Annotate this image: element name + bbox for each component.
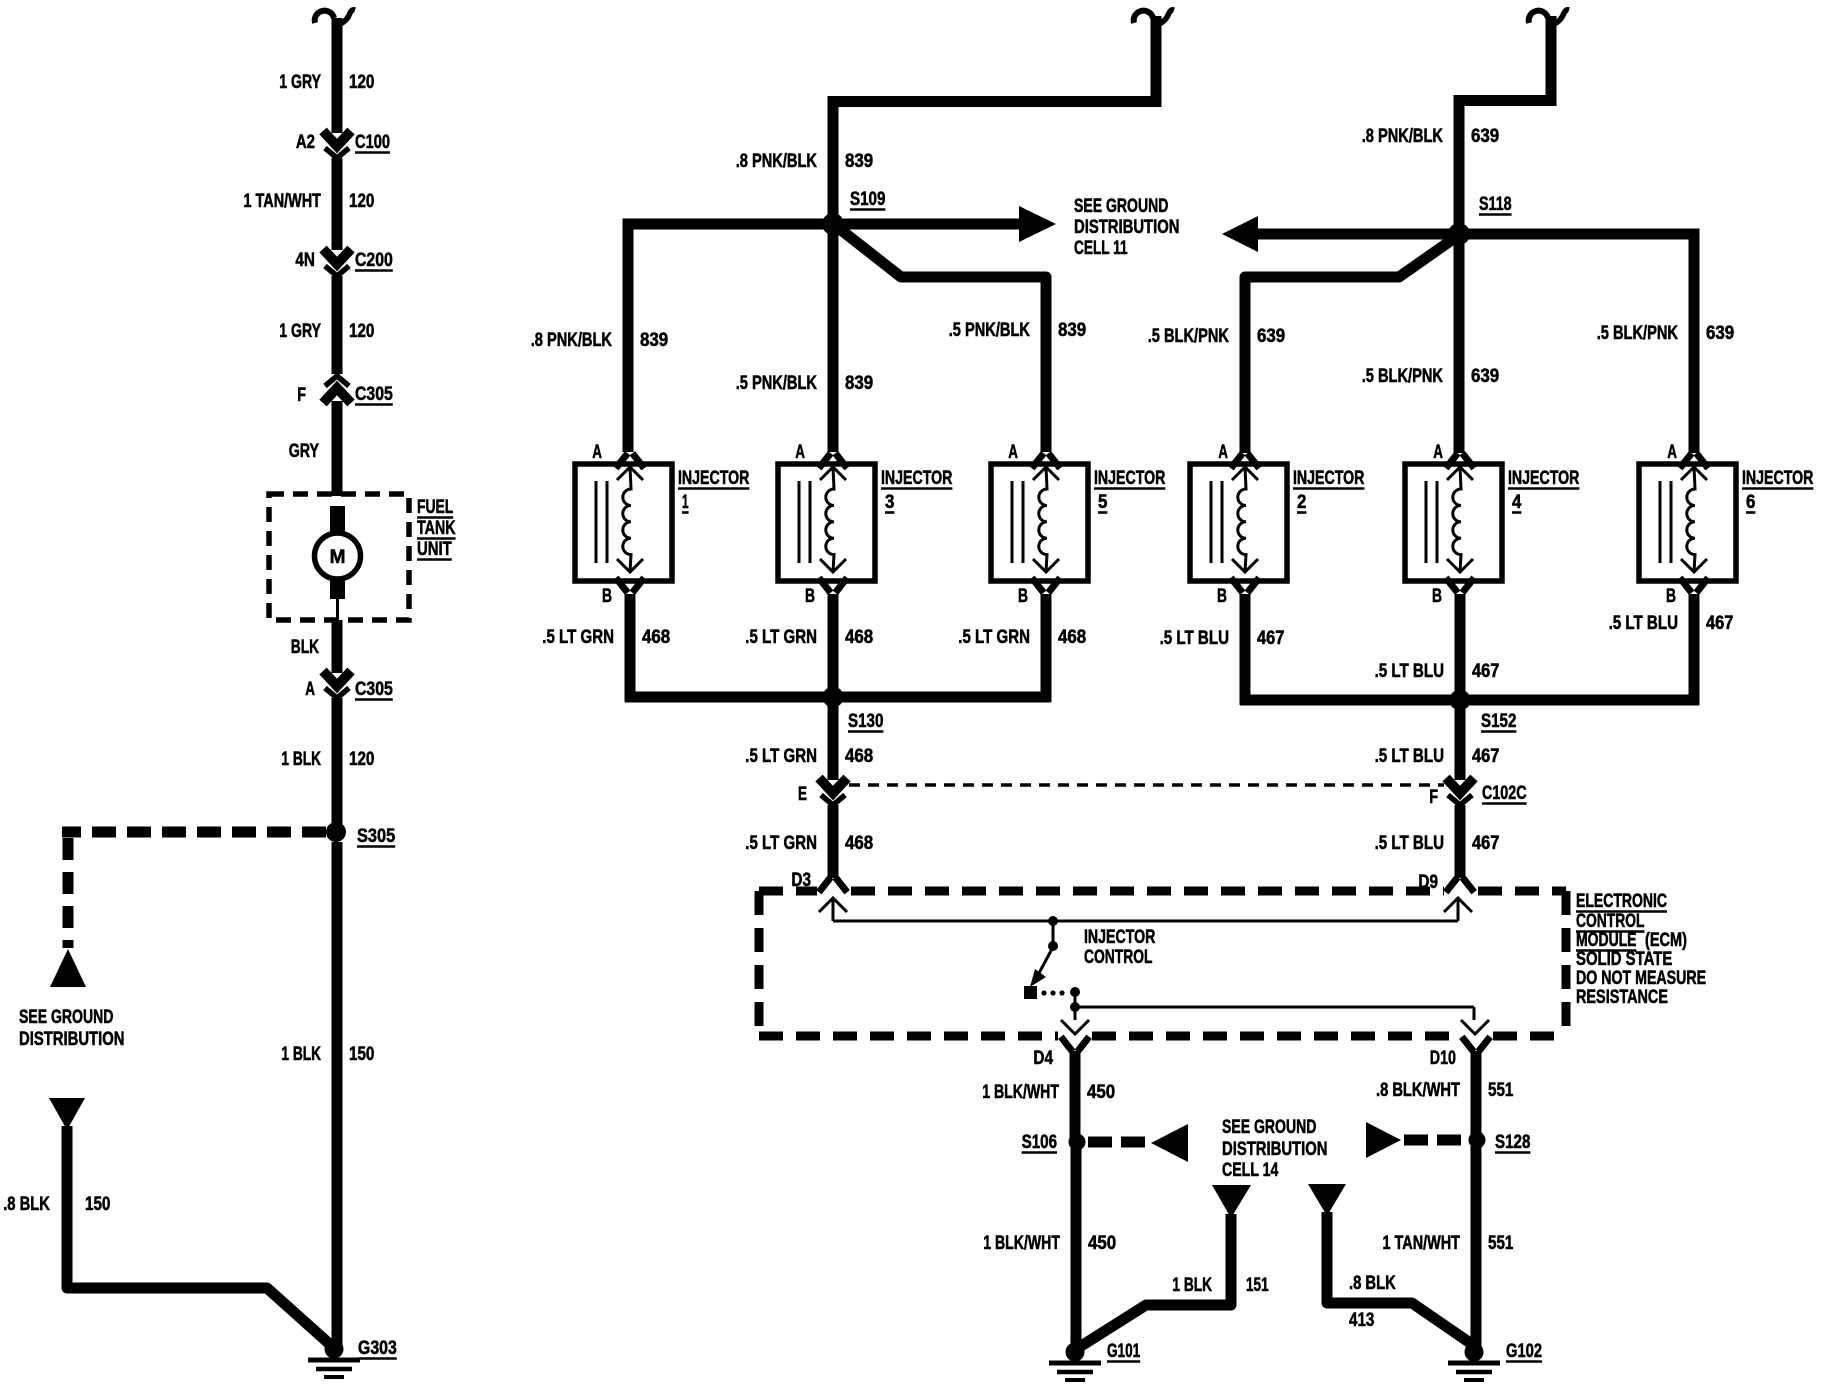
svg-text:468: 468 bbox=[845, 746, 873, 767]
svg-text:839: 839 bbox=[640, 330, 668, 351]
wire: left feed from fuse, squiggle top bbox=[315, 10, 355, 133]
svg-text:G101: G101 bbox=[1107, 1341, 1141, 1362]
svg-text:FUEL: FUEL bbox=[417, 497, 454, 518]
svg-text:DISTRIBUTION: DISTRIBUTION bbox=[19, 1029, 125, 1050]
svg-text:M: M bbox=[330, 547, 346, 568]
svg-text:839: 839 bbox=[845, 373, 873, 394]
wire 1 GRY 120 bbox=[279, 276, 374, 374]
splice S106 bbox=[1022, 1132, 1086, 1153]
wire S118 to injector 6 bbox=[1464, 234, 1694, 453]
svg-text:S128: S128 bbox=[1495, 1132, 1530, 1153]
ECM internal line to D10 bbox=[1075, 1007, 1489, 1034]
svg-text:1: 1 bbox=[682, 492, 689, 513]
svg-text:.8 BLK/WHT: .8 BLK/WHT bbox=[1376, 1080, 1460, 1101]
svg-text:B: B bbox=[805, 586, 815, 607]
wire label .8 PNK/BLK 839 bbox=[736, 151, 874, 172]
svg-text:.5 PNK/BLK: .5 PNK/BLK bbox=[949, 320, 1031, 341]
svg-text:A: A bbox=[1433, 442, 1443, 463]
wire 1 BLK 120 bbox=[281, 698, 374, 830]
connector D10 out of ECM bbox=[1430, 1040, 1488, 1070]
fuel tank unit dashed box bbox=[269, 494, 409, 620]
wire F to D9, .5 LT BLU 467 bbox=[1375, 805, 1500, 878]
svg-text:DO NOT MEASURE: DO NOT MEASURE bbox=[1576, 968, 1706, 989]
injector 1 bbox=[575, 442, 750, 607]
svg-text:467: 467 bbox=[1472, 746, 1499, 767]
svg-text:S305: S305 bbox=[357, 826, 396, 847]
wire 1 BLK 150 down to G303 bbox=[281, 842, 374, 1347]
svg-text:1 BLK: 1 BLK bbox=[281, 749, 321, 770]
svg-text:3: 3 bbox=[885, 492, 894, 513]
bus wire to S130 bbox=[625, 692, 1051, 703]
svg-text:4N: 4N bbox=[295, 250, 315, 271]
svg-text:467: 467 bbox=[1257, 628, 1284, 649]
svg-text:DISTRIBUTION: DISTRIBUTION bbox=[1074, 217, 1180, 238]
svg-text:450: 450 bbox=[1087, 1082, 1115, 1103]
wire S118 to injector 4 bbox=[1454, 240, 1465, 453]
connector C102C pin E bbox=[798, 778, 847, 805]
svg-text:639: 639 bbox=[1706, 323, 1734, 344]
svg-text:INJECTOR: INJECTOR bbox=[1508, 468, 1580, 489]
svg-text:468: 468 bbox=[642, 627, 670, 648]
wire label .8 PNK/BLK 839 (injector 1 branch) bbox=[531, 330, 669, 351]
connector C305 pin A bbox=[305, 671, 393, 700]
ECM internal line D3-D9 bbox=[833, 920, 1458, 923]
svg-text:150: 150 bbox=[349, 1044, 374, 1065]
svg-text:.5 LT BLU: .5 LT BLU bbox=[1375, 661, 1444, 682]
svg-text:B: B bbox=[1018, 586, 1028, 607]
splice S128 bbox=[1469, 1132, 1531, 1154]
svg-text:.5 LT GRN: .5 LT GRN bbox=[542, 627, 614, 648]
svg-text:INJECTOR: INJECTOR bbox=[881, 468, 953, 489]
dashed connector line C102C bbox=[849, 783, 1444, 787]
wire 1 BLK 151 bbox=[1078, 1214, 1231, 1348]
svg-text:839: 839 bbox=[845, 151, 873, 172]
svg-text:.5 LT GRN: .5 LT GRN bbox=[745, 746, 817, 767]
svg-text:A: A bbox=[1218, 442, 1228, 463]
svg-text:.8 BLK: .8 BLK bbox=[3, 1194, 50, 1215]
ECM dashed box bbox=[759, 891, 1566, 1036]
svg-text:SEE GROUND: SEE GROUND bbox=[1074, 196, 1168, 217]
svg-text:.5 BLK/PNK: .5 BLK/PNK bbox=[1362, 366, 1444, 387]
svg-text:468: 468 bbox=[845, 627, 873, 648]
svg-text:.5 LT BLU: .5 LT BLU bbox=[1375, 833, 1444, 854]
connector C100, pin A2 bbox=[296, 131, 390, 158]
svg-text:1 GRY: 1 GRY bbox=[279, 321, 321, 342]
svg-text:A: A bbox=[1008, 442, 1018, 463]
fuel tank unit label bbox=[417, 497, 456, 560]
svg-text:INJECTOR: INJECTOR bbox=[1293, 468, 1365, 489]
svg-text:CELL 11: CELL 11 bbox=[1074, 238, 1128, 259]
svg-text:.5 LT GRN: .5 LT GRN bbox=[745, 833, 817, 854]
svg-text:RESISTANCE: RESISTANCE bbox=[1576, 987, 1668, 1008]
svg-text:1 TAN/WHT: 1 TAN/WHT bbox=[1383, 1233, 1461, 1254]
svg-text:.5 LT BLU: .5 LT BLU bbox=[1160, 628, 1229, 649]
svg-text:GRY: GRY bbox=[289, 441, 320, 462]
svg-text:150: 150 bbox=[85, 1194, 110, 1215]
off-page arrow down (left, cell 14 ground) bbox=[1212, 1185, 1251, 1218]
wire S130 to E, .5 LT GRN 468 bbox=[745, 702, 873, 780]
off-page arrow down (right, cell 14 ground) bbox=[1308, 1184, 1346, 1216]
wire label .5 BLK/PNK 639 (injector 6 branch) bbox=[1597, 323, 1735, 344]
svg-text:1 BLK/WHT: 1 BLK/WHT bbox=[983, 1233, 1060, 1254]
wire injector 1 B to bus, .5 LT GRN 468 bbox=[542, 594, 670, 702]
dashed link to S128 bbox=[1404, 1135, 1466, 1146]
svg-text:.5 LT GRN: .5 LT GRN bbox=[745, 627, 817, 648]
injector 2 bbox=[1190, 442, 1365, 607]
wire GRY bbox=[289, 401, 337, 496]
svg-text:E: E bbox=[798, 784, 807, 805]
ground G102 bbox=[1448, 1341, 1542, 1380]
svg-text:4: 4 bbox=[1512, 492, 1522, 513]
wire: middle feed squiggle bbox=[833, 10, 1174, 228]
svg-text:(ECM): (ECM) bbox=[1645, 930, 1687, 951]
wire injector 4 B to bus, .5 LT BLU 467 bbox=[1375, 594, 1500, 705]
svg-text:1 GRY: 1 GRY bbox=[279, 72, 321, 93]
wire injector 2 B to bus, .5 LT BLU 467 bbox=[1160, 594, 1285, 705]
svg-text:CONTROL: CONTROL bbox=[1576, 911, 1645, 932]
svg-text:B: B bbox=[1217, 586, 1227, 607]
wire label 1 GRY 120 bbox=[279, 72, 374, 93]
svg-text:839: 839 bbox=[1058, 320, 1086, 341]
splice S130 bbox=[823, 687, 884, 733]
wire injector 3 B to bus, .5 LT GRN 468 bbox=[745, 594, 873, 702]
svg-text:.8 BLK: .8 BLK bbox=[1349, 1273, 1396, 1294]
wire S152 to F, .5 LT BLU 467 bbox=[1375, 705, 1500, 780]
svg-text:.5 LT BLU: .5 LT BLU bbox=[1375, 746, 1444, 767]
svg-text:ELECTRONIC: ELECTRONIC bbox=[1576, 891, 1667, 912]
wire label .5 BLK/PNK 639 (injector 4 branch) bbox=[1362, 366, 1500, 387]
svg-text:6: 6 bbox=[1746, 492, 1755, 513]
injector control switch bbox=[1024, 916, 1080, 1012]
wire 1 TAN/WHT 551 to G102 bbox=[1383, 1146, 1514, 1350]
svg-text:UNIT: UNIT bbox=[417, 539, 452, 560]
svg-text:1 BLK: 1 BLK bbox=[1172, 1275, 1212, 1296]
wire E to D3, .5 LT GRN 468 bbox=[745, 805, 873, 878]
connector C200, pin 4N bbox=[295, 249, 392, 276]
injector 3 bbox=[778, 442, 953, 607]
off-page arrow right: see ground distribution cell 11 bbox=[843, 206, 1056, 242]
svg-text:1 BLK/WHT: 1 BLK/WHT bbox=[982, 1082, 1059, 1103]
svg-text:1 TAN/WHT: 1 TAN/WHT bbox=[244, 191, 322, 212]
splice S118 bbox=[1448, 194, 1512, 245]
svg-text:SEE GROUND: SEE GROUND bbox=[1222, 1117, 1316, 1138]
injector 5 bbox=[991, 442, 1166, 607]
svg-text:120: 120 bbox=[349, 72, 374, 93]
connector D9 into ECM bbox=[1418, 872, 1472, 893]
svg-text:.5 BLK/PNK: .5 BLK/PNK bbox=[1148, 326, 1230, 347]
ECM internal line to D4 bbox=[1061, 1007, 1089, 1034]
svg-text:.5 LT GRN: .5 LT GRN bbox=[958, 627, 1030, 648]
wire S109 to injector 1 bbox=[628, 224, 838, 452]
svg-text:.8 PNK/BLK: .8 PNK/BLK bbox=[1362, 126, 1444, 147]
svg-text:639: 639 bbox=[1471, 366, 1499, 387]
svg-text:INJECTOR: INJECTOR bbox=[1084, 927, 1156, 948]
svg-text:C305: C305 bbox=[355, 384, 393, 405]
svg-text:C100: C100 bbox=[355, 132, 390, 153]
svg-text:151: 151 bbox=[1246, 1275, 1269, 1296]
ground G101 bbox=[1049, 1341, 1141, 1380]
splice S305 bbox=[326, 822, 396, 847]
svg-text:C200: C200 bbox=[355, 250, 393, 271]
svg-text:5: 5 bbox=[1098, 492, 1108, 513]
svg-text:.8 PNK/BLK: .8 PNK/BLK bbox=[531, 330, 613, 351]
label SEE GROUND DISTRIBUTION CELL 14 bbox=[1222, 1117, 1328, 1181]
wire label .5 PNK/BLK 839 (injector 3 branch) bbox=[736, 373, 874, 394]
svg-text:B: B bbox=[1666, 586, 1676, 607]
svg-text:INJECTOR: INJECTOR bbox=[1742, 468, 1814, 489]
svg-text:A: A bbox=[592, 442, 602, 463]
svg-text:120: 120 bbox=[349, 321, 374, 342]
svg-text:639: 639 bbox=[1257, 326, 1285, 347]
wire injector 5 B to bus, .5 LT GRN 468 bbox=[958, 594, 1086, 702]
svg-text:S106: S106 bbox=[1022, 1132, 1057, 1153]
wire S109 to injector 5 (jog) bbox=[836, 226, 1046, 452]
injector 4 bbox=[1405, 442, 1580, 607]
svg-text:467: 467 bbox=[1472, 833, 1499, 854]
svg-text:551: 551 bbox=[1488, 1233, 1514, 1254]
label SEE GROUND DISTRIBUTION bbox=[19, 1007, 125, 1050]
svg-text:CONTROL: CONTROL bbox=[1084, 947, 1153, 968]
svg-text:D4: D4 bbox=[1033, 1048, 1053, 1069]
svg-text:SOLID STATE: SOLID STATE bbox=[1576, 949, 1672, 970]
svg-text:G102: G102 bbox=[1506, 1341, 1542, 1362]
svg-text:B: B bbox=[1432, 586, 1442, 607]
wire: right feed squiggle bbox=[1459, 10, 1569, 238]
bus wire to S152 bbox=[1240, 695, 1699, 706]
splice S109 bbox=[822, 189, 885, 235]
svg-text:B: B bbox=[602, 586, 612, 607]
ECM label block bbox=[1576, 891, 1706, 1008]
svg-text:A: A bbox=[305, 679, 315, 700]
off-page arrow down feeding .8 BLK 150 bbox=[49, 1098, 85, 1130]
wire .8 BLK 413 bbox=[1327, 1212, 1476, 1347]
svg-text:.5 PNK/BLK: .5 PNK/BLK bbox=[736, 373, 818, 394]
svg-text:.5 BLK/PNK: .5 BLK/PNK bbox=[1597, 323, 1679, 344]
wire 1 BLK/WHT 450 to G101 bbox=[983, 1148, 1116, 1350]
svg-text:639: 639 bbox=[1471, 126, 1499, 147]
ECM pin arrow D3 bbox=[819, 898, 847, 921]
connector D3 into ECM bbox=[791, 870, 845, 891]
svg-text:MODULE: MODULE bbox=[1576, 930, 1637, 951]
svg-text:SEE GROUND: SEE GROUND bbox=[19, 1007, 113, 1028]
ground G303 bbox=[308, 1338, 397, 1377]
svg-text:C305: C305 bbox=[355, 679, 393, 700]
svg-text:468: 468 bbox=[1058, 627, 1086, 648]
svg-text:C102C: C102C bbox=[1482, 783, 1527, 804]
svg-text:S130: S130 bbox=[848, 711, 883, 732]
injector 6 bbox=[1639, 442, 1814, 607]
ECM pin arrow D9 bbox=[1444, 898, 1472, 921]
svg-text:2: 2 bbox=[1297, 492, 1306, 513]
svg-text:D10: D10 bbox=[1430, 1048, 1456, 1069]
svg-text:G303: G303 bbox=[358, 1338, 397, 1359]
wire injector 6 B to bus, .5 LT BLU 467 bbox=[1609, 594, 1734, 705]
svg-text:413: 413 bbox=[1349, 1310, 1374, 1331]
wire S118 to injector 2 (jog) bbox=[1245, 237, 1456, 453]
connector C102C pin F bbox=[1429, 778, 1527, 808]
wire 1 TAN/WHT 120 bbox=[244, 158, 375, 250]
svg-text:467: 467 bbox=[1706, 613, 1733, 634]
dashed wire from S305 to ground distribution bbox=[62, 832, 326, 948]
wire label .5 PNK/BLK 839 (injector 5 branch) bbox=[949, 320, 1087, 341]
connector C305, pin F bbox=[297, 376, 393, 406]
off-page arrow left (cell 14) bbox=[1151, 1124, 1188, 1162]
svg-text:1 BLK: 1 BLK bbox=[281, 1044, 321, 1065]
svg-text:S118: S118 bbox=[1479, 194, 1512, 215]
dashed link S106 to off-page arrow bbox=[1088, 1137, 1150, 1148]
fuel pump motor M bbox=[315, 506, 361, 622]
splice S152 bbox=[1450, 690, 1517, 733]
svg-text:468: 468 bbox=[845, 833, 873, 854]
svg-text:.8 PNK/BLK: .8 PNK/BLK bbox=[736, 151, 818, 172]
label INJECTOR CONTROL bbox=[1084, 927, 1156, 968]
svg-text:CELL 14: CELL 14 bbox=[1222, 1160, 1279, 1181]
svg-text:BLK: BLK bbox=[291, 637, 319, 658]
connector D4 out of ECM bbox=[1033, 1040, 1087, 1070]
wire .8 BLK 150 bbox=[3, 1126, 334, 1348]
wire label .8 PNK/BLK 639 bbox=[1362, 126, 1500, 147]
svg-text:551: 551 bbox=[1488, 1080, 1514, 1101]
wire BLK below tank bbox=[291, 620, 337, 673]
svg-text:DISTRIBUTION: DISTRIBUTION bbox=[1222, 1139, 1328, 1160]
svg-text:F: F bbox=[297, 385, 306, 406]
svg-text:F: F bbox=[1429, 787, 1438, 808]
svg-text:120: 120 bbox=[349, 749, 374, 770]
svg-text:INJECTOR: INJECTOR bbox=[678, 468, 750, 489]
svg-text:A: A bbox=[795, 442, 805, 463]
svg-text:450: 450 bbox=[1088, 1233, 1116, 1254]
wire 1 BLK/WHT 450 bbox=[982, 1051, 1115, 1140]
wire .8 BLK/WHT 551 bbox=[1376, 1051, 1514, 1136]
svg-text:120: 120 bbox=[349, 191, 374, 212]
svg-text:.5 LT BLU: .5 LT BLU bbox=[1609, 613, 1678, 634]
wire label .5 BLK/PNK 639 (injector 2 branch) bbox=[1148, 326, 1286, 347]
label SEE GROUND DISTRIBUTION CELL 11 bbox=[1074, 196, 1180, 259]
svg-text:INJECTOR: INJECTOR bbox=[1094, 468, 1166, 489]
svg-text:TANK: TANK bbox=[417, 518, 456, 539]
svg-text:S152: S152 bbox=[1481, 711, 1516, 732]
svg-text:467: 467 bbox=[1472, 661, 1499, 682]
wire S109 to injector 3 bbox=[828, 230, 839, 452]
off-page arrow left: see ground distribution cell 11 bbox=[1222, 216, 1454, 252]
off-page arrow up (ground distribution) bbox=[50, 949, 86, 987]
svg-text:A2: A2 bbox=[296, 132, 315, 153]
svg-text:A: A bbox=[1667, 442, 1677, 463]
off-page arrow right (cell 14) bbox=[1366, 1122, 1401, 1158]
svg-text:S109: S109 bbox=[850, 189, 885, 210]
